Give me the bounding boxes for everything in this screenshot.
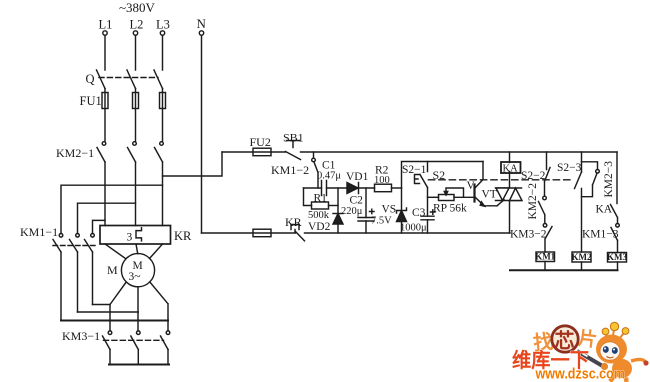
svg-text:VS: VS	[382, 204, 397, 216]
svg-text:RP 56k: RP 56k	[433, 203, 467, 215]
svg-text:3: 3	[127, 232, 133, 244]
svg-text:KM2: KM2	[572, 252, 592, 262]
svg-text:C2: C2	[350, 195, 364, 207]
svg-text:KM1: KM1	[535, 252, 555, 262]
svg-text:KA: KA	[596, 204, 613, 216]
svg-text:FU2: FU2	[250, 135, 271, 149]
svg-text:芯: 芯	[555, 329, 575, 353]
svg-text:KM1−2: KM1−2	[271, 163, 309, 177]
svg-text:片: 片	[577, 326, 599, 351]
svg-text:S2: S2	[433, 168, 446, 182]
svg-text:KM1−3: KM1−3	[582, 229, 619, 241]
svg-text:S2−1: S2−1	[402, 164, 427, 176]
svg-text:L1: L1	[99, 18, 113, 32]
svg-text:220μ: 220μ	[341, 206, 363, 217]
svg-text:100: 100	[374, 175, 390, 186]
svg-text:VD1: VD1	[346, 171, 369, 183]
svg-text:500k: 500k	[308, 210, 330, 221]
svg-text:KM3−1: KM3−1	[62, 329, 100, 343]
svg-text:KM1−1: KM1−1	[20, 225, 58, 239]
svg-text:7.5V: 7.5V	[371, 216, 392, 227]
svg-text:KM3: KM3	[607, 252, 627, 262]
svg-text:KR: KR	[285, 215, 302, 229]
svg-text:KM2−3: KM2−3	[603, 161, 615, 198]
svg-text:KR: KR	[174, 229, 192, 243]
svg-text:KM2−2: KM2−2	[527, 183, 539, 220]
svg-text:S2−2: S2−2	[521, 170, 546, 182]
svg-text:VD2: VD2	[308, 221, 331, 233]
svg-text:R1: R1	[314, 193, 328, 205]
svg-text:V: V	[467, 180, 476, 192]
svg-text:S2−3: S2−3	[557, 162, 582, 174]
svg-text:KM2−1: KM2−1	[56, 146, 94, 160]
svg-text:VT: VT	[482, 189, 497, 201]
svg-text:~380V: ~380V	[119, 0, 156, 15]
svg-text:KM3−2: KM3−2	[510, 229, 547, 241]
svg-text:1000μ: 1000μ	[400, 223, 427, 234]
svg-text:www.dzsc.com: www.dzsc.com	[535, 366, 625, 382]
svg-text:Q: Q	[86, 72, 95, 86]
svg-text:N: N	[197, 16, 207, 31]
svg-text:SB1: SB1	[283, 131, 304, 145]
svg-text:KA: KA	[503, 164, 519, 175]
svg-text:L3: L3	[156, 18, 170, 32]
svg-text:L2: L2	[130, 18, 144, 32]
svg-text:FU1: FU1	[80, 94, 102, 108]
svg-text:M: M	[107, 263, 118, 277]
svg-text:0.47μ: 0.47μ	[317, 171, 341, 182]
svg-text:3~: 3~	[129, 271, 141, 283]
svg-text:C3: C3	[412, 207, 426, 219]
